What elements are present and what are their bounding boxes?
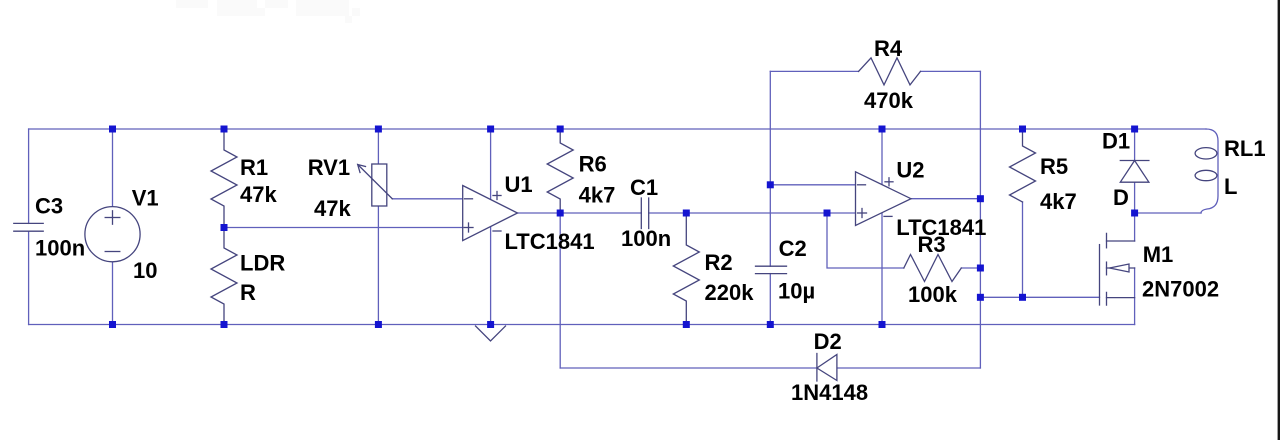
- svg-text:R: R: [240, 280, 256, 305]
- svg-text:220k: 220k: [705, 280, 755, 305]
- wire D2 row left: [560, 367, 817, 369]
- svg-text:C2: C2: [779, 236, 807, 261]
- svg-text:R6: R6: [579, 152, 607, 177]
- svg-text:100k: 100k: [908, 282, 958, 307]
- svg-text:C3: C3: [35, 194, 63, 219]
- wire RV1 wiper row to U1 minus input: [392, 198, 462, 200]
- wire V1 bottom lead: [112, 262, 114, 325]
- node top rail R6: [557, 126, 564, 133]
- wire D1 top lead: [1134, 129, 1136, 161]
- svg-text:4k7: 4k7: [1040, 189, 1077, 214]
- svg-text:L: L: [1224, 174, 1237, 199]
- wire R4 right lead: [921, 70, 981, 72]
- svg-text:RL1: RL1: [1224, 136, 1266, 161]
- node top rail U2 power: [879, 126, 886, 133]
- wire D1 bottom lead to node D: [1134, 182, 1136, 213]
- node bottom rail R2: [683, 321, 690, 328]
- svg-text:M1: M1: [1143, 242, 1174, 267]
- svg-text:C1: C1: [630, 175, 658, 200]
- wire D2 left vertical from U1 output node: [559, 213, 561, 368]
- svg-text:1N4148: 1N4148: [791, 380, 868, 405]
- node R3 right: [977, 265, 984, 272]
- node top rail R1: [221, 126, 228, 133]
- diode D1: [1120, 161, 1149, 183]
- node U2 minus input / C2: [767, 181, 774, 188]
- node top rail U1 power: [487, 126, 494, 133]
- svg-text:R1: R1: [240, 155, 268, 180]
- node top rail R5: [1019, 126, 1026, 133]
- wire feedback node vertical: [979, 71, 981, 368]
- ground: [476, 326, 506, 341]
- svg-text:LDR: LDR: [240, 251, 285, 276]
- node U2 output: [977, 195, 984, 202]
- node U2 plus input: [824, 210, 831, 217]
- wire R4 left lead: [770, 70, 858, 72]
- wire bottom rail: [29, 324, 1135, 326]
- node C1/R2: [683, 210, 690, 217]
- wire D2 row right: [837, 367, 981, 369]
- svg-text:D2: D2: [814, 329, 842, 354]
- node bottom rail LDR: [221, 321, 228, 328]
- svg-text:R4: R4: [874, 36, 903, 61]
- voltage source V1: [85, 207, 140, 262]
- node R5 bottom: [1019, 294, 1026, 301]
- node top rail D1: [1131, 126, 1138, 133]
- transistor M1: [1100, 233, 1135, 305]
- resistor R2: [673, 213, 699, 325]
- wire U1 output row through C1 left: [518, 212, 642, 214]
- resistor LDR: [211, 228, 237, 325]
- wire R5 bottom lead: [1022, 202, 1024, 297]
- wire C2 bottom lead: [769, 274, 771, 325]
- node bottom rail RV1: [375, 321, 382, 328]
- wire U2 minus input row: [770, 184, 855, 186]
- node gate row left: [977, 294, 984, 301]
- wire U2 power vertical: [881, 129, 883, 325]
- svg-text:100n: 100n: [621, 226, 671, 251]
- resistor R4: [859, 58, 921, 85]
- node bottom rail U2 power: [879, 321, 886, 328]
- wire left branch upper (C3 top lead): [28, 129, 30, 223]
- node bottom rail ground: [487, 321, 494, 328]
- svg-text:R5: R5: [1040, 154, 1068, 179]
- wire top rail: [29, 128, 1206, 130]
- op-amp U1: [463, 186, 518, 241]
- svg-text:U1: U1: [505, 172, 533, 197]
- svg-text:RV1: RV1: [308, 155, 350, 180]
- wire C2 / U2 minus node vertical upper: [769, 71, 771, 266]
- wire R3 right lead: [961, 267, 980, 269]
- wire node D to RL1 bottom: [1135, 212, 1201, 214]
- resistor R3: [904, 255, 962, 282]
- wire M1 drain lead: [1134, 213, 1136, 241]
- resistor R6: [547, 129, 573, 213]
- svg-text:470k: 470k: [864, 88, 914, 113]
- node bottom rail V1: [109, 321, 116, 328]
- svg-text:47k: 47k: [240, 182, 277, 207]
- svg-text:R2: R2: [705, 250, 733, 275]
- svg-text:D: D: [1113, 185, 1129, 210]
- wire U1 power vertical: [490, 129, 492, 325]
- svg-text:2N7002: 2N7002: [1142, 277, 1219, 302]
- svg-text:D1: D1: [1102, 129, 1130, 154]
- wire gate row: [980, 296, 1099, 298]
- wire signal row C1 right to U2 plus input: [649, 212, 856, 214]
- svg-text:10µ: 10µ: [778, 279, 815, 304]
- op-amp U2: [856, 172, 912, 226]
- node D: [1131, 210, 1138, 217]
- faint header text remnant: [176, 0, 360, 23]
- screenshot right edge border: [1278, 0, 1280, 440]
- svg-text:LTC1841: LTC1841: [505, 229, 595, 254]
- wire V1 top lead: [112, 129, 114, 207]
- resistor R5: [1010, 129, 1036, 202]
- node U1 output: [557, 210, 564, 217]
- node top rail V1: [109, 126, 116, 133]
- potentiometer RV1: [358, 129, 393, 325]
- wire U1 plus-input row from R1/LDR node: [224, 227, 463, 229]
- diode D2: [817, 354, 837, 382]
- capacitor C2: [756, 266, 787, 273]
- svg-text:100n: 100n: [35, 236, 85, 261]
- svg-text:47k: 47k: [314, 196, 351, 221]
- wire from plus-input node down to R3: [827, 213, 904, 268]
- wire M1 source/body vertical to bottom rail: [1134, 268, 1136, 325]
- node R1/LDR to U1 plus input: [221, 224, 228, 231]
- svg-text:10: 10: [133, 258, 157, 283]
- capacitor C1: [641, 198, 648, 229]
- svg-text:V1: V1: [132, 186, 159, 211]
- svg-text:R3: R3: [918, 232, 946, 257]
- svg-text:4k7: 4k7: [579, 183, 616, 208]
- wire left branch lower (C3 bottom lead): [28, 231, 30, 324]
- resistor R1: [211, 129, 237, 228]
- wire U2 output to feedback node: [911, 198, 980, 200]
- capacitor C3: [14, 223, 43, 231]
- node top rail RV1: [375, 126, 382, 133]
- relay coil RL1: [1195, 129, 1218, 213]
- svg-text:U2: U2: [896, 158, 924, 183]
- node bottom rail C2: [767, 321, 774, 328]
